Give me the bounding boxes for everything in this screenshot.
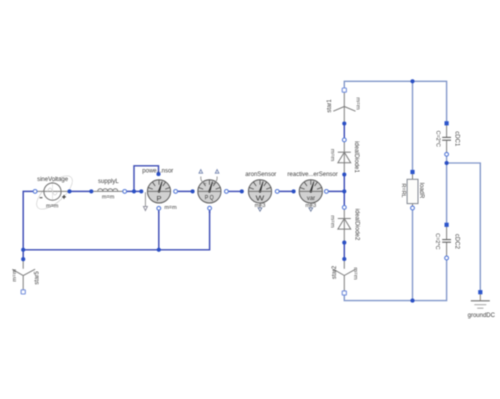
svg-text:P: P: [156, 194, 161, 203]
svg-text:m=3: m=3: [305, 203, 316, 209]
svg-text:idealDiode2: idealDiode2: [353, 209, 359, 241]
svg-text:W: W: [256, 194, 266, 203]
svg-text:m=m: m=m: [102, 195, 115, 201]
svg-text:m=m: m=m: [329, 215, 335, 228]
svg-text:C=2*C: C=2*C: [434, 233, 440, 249]
svg-text:var: var: [307, 195, 316, 202]
svg-text:P Q: P Q: [205, 195, 214, 202]
svg-text:m=m: m=m: [354, 97, 360, 110]
svg-text:star5: star5: [35, 271, 41, 285]
svg-text:cDC2: cDC2: [453, 234, 459, 250]
svg-text:m=m: m=m: [352, 267, 358, 280]
svg-text:m=m: m=m: [164, 205, 177, 211]
svg-text:star1: star1: [327, 99, 333, 113]
svg-text:m=m: m=m: [12, 269, 18, 282]
svg-text:aronSensor: aronSensor: [245, 172, 276, 178]
svg-text:R=RL: R=RL: [400, 183, 406, 197]
svg-text:idealDiode1: idealDiode1: [353, 141, 359, 173]
svg-text:loadR: loadR: [418, 183, 424, 199]
svg-text:C=2*C: C=2*C: [434, 131, 440, 147]
svg-text:m=m: m=m: [46, 204, 59, 210]
svg-text:sineVoltage: sineVoltage: [37, 177, 69, 183]
svg-text:m=m: m=m: [329, 149, 335, 162]
svg-text:star2: star2: [332, 265, 338, 279]
svg-text:groundDC: groundDC: [468, 313, 496, 319]
svg-text:supplyL: supplyL: [98, 179, 119, 185]
svg-text:reactive...erSensor: reactive...erSensor: [287, 172, 337, 178]
svg-text:powe...nsor: powe...nsor: [142, 169, 173, 175]
svg-text:m=3: m=3: [255, 203, 266, 209]
svg-text:cDC1: cDC1: [454, 131, 460, 147]
